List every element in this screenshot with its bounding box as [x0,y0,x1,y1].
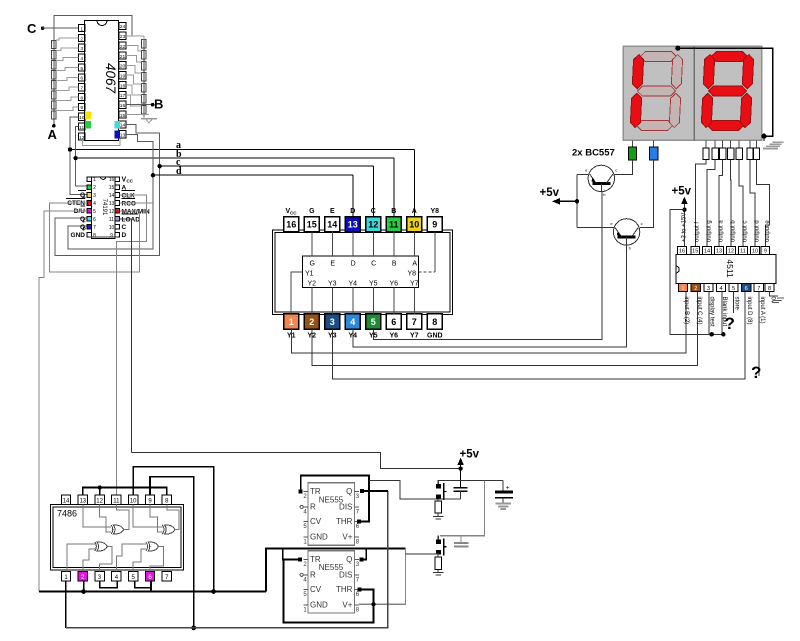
74191 pin 6 box [87,217,92,222]
resistor Rs1 (segment) [703,148,709,160]
wire right ladder tap to 4067 pin 18 [126,85,142,95]
7486 pin 8 box [162,495,171,504]
4067 pin 13 box [119,131,126,138]
svg-text:11: 11 [113,498,120,504]
svg-text:14: 14 [63,498,70,504]
svg-text:5: 5 [732,286,735,292]
74191 pin 3 box [87,193,92,198]
svg-text:+5v: +5v [460,449,480,461]
svg-text:5: 5 [93,209,96,215]
wire ladder tap to 4067 pin 3 [56,48,79,50]
svg-text:?: ? [725,314,735,333]
wire TR2 connection [283,549,301,560]
wire right ladder tap to 4067 pin 21 [126,55,142,61]
4511 pin 10 box [751,246,760,254]
electrolytic C3 [502,481,504,491]
4067 pin 23 box [119,32,126,39]
right ladder chain wire [143,39,145,116]
U3 wire Y2 to pin 2 [311,288,313,314]
svg-text:Q: Q [346,487,352,496]
4067 pin 14 channel marker (cyan) [114,121,120,129]
74191 pin 7 box [87,225,92,230]
svg-text:CV: CV [310,585,322,594]
svg-text:4067: 4067 [103,63,118,94]
svg-text:15: 15 [692,249,698,255]
U3 pin 3 box [325,314,340,329]
4511 pin 12 box [727,246,736,254]
4511 pin 5 box [729,284,738,292]
junction pin9 rail [191,626,196,631]
wire TR1-THR1 loop [301,476,369,522]
4511 pin 14 box [703,246,712,254]
7486 pin 6 box [145,572,154,581]
display pin stub 5 [738,140,740,148]
resistor R12 (right ladder) [142,72,147,81]
svg-text:C: C [122,224,127,231]
resistor R2 (left ladder) [52,51,57,59]
IC U2 74191 counter body [92,177,115,239]
wire 4511 pin4 drop [721,292,723,335]
wire ladder tap to 4067 pin 9 [56,107,79,111]
svg-text:output b: output b [730,220,736,242]
U3 wire pin 11 to network [393,232,395,256]
svg-text:12: 12 [79,135,85,141]
U3 pin 1 box [284,314,299,329]
4067 pin 18 box [119,81,126,88]
svg-text:8: 8 [93,233,96,239]
XOR gate A (7486) [111,525,113,534]
wire 7486 pin 10 to rail [133,467,213,592]
svg-text:Y8: Y8 [407,271,416,278]
resistor R3 (left ladder) [52,61,57,69]
junction net-d [151,173,155,177]
resistor R14 (right ladder) [142,94,147,103]
svg-text:6: 6 [391,317,396,327]
wire LOAD to +5v rail [120,219,132,453]
7486 internal wires gate A [83,504,111,527]
4067 pin 20 box [119,62,126,69]
svg-text:Y1: Y1 [305,271,314,278]
svg-text:Y2: Y2 [308,280,317,287]
svg-text:18: 18 [120,83,126,89]
7486 internal wires gate D [116,544,146,572]
svg-text:B: B [391,208,396,215]
4067 pin 7 box [79,84,85,91]
wire down to THR2 node [359,549,406,605]
svg-text:D: D [350,208,355,215]
4511 pin 16 box [678,246,687,254]
svg-text:15: 15 [307,220,317,230]
display pin stub 3 [722,140,724,148]
svg-text:D/U: D/U [74,208,86,215]
wire right ladder tap to 4067 pin 19 [126,75,142,84]
svg-text:input C (4): input C (4) [696,297,702,325]
wire Q1 emitter [577,173,588,175]
wire net b horizontal [76,157,394,159]
svg-text:A: A [412,261,417,268]
wire segment resistor 5 to 4511 [739,160,743,247]
svg-text:7486: 7486 [57,509,77,519]
wire net-b vertical (4067 pin11 - QB) [76,127,87,186]
svg-text:D: D [351,261,356,268]
wire segment resistor 2 to 4511 [707,160,715,247]
wire ladder tap to 4067 pin 2 [56,38,79,40]
node B [126,104,152,106]
svg-text:GND: GND [310,533,328,542]
U3 wire Y4 to pin 4 [352,288,354,314]
wire net d horizontal [153,174,353,176]
U3 wire pin 13 to network [352,232,354,256]
svg-text:input A (1): input A (1) [759,297,765,324]
wire 7486 pin 9 to bottom rail [150,477,194,628]
4511 pin8 ground [770,292,779,296]
74191 pin 1 box [87,177,92,182]
svg-text:R: R [310,502,316,511]
svg-text:7: 7 [757,286,760,292]
svg-text:9: 9 [764,249,767,255]
svg-text:22: 22 [120,44,126,50]
svg-text:G: G [309,261,314,268]
4511 pin 2 box [691,284,700,292]
74191 pin 11 box [115,217,120,222]
IC U6 NE555 timer 1 [308,483,354,545]
wire D/U riser (magenta net) [39,211,87,592]
svg-text:G: G [309,208,315,215]
svg-text:14: 14 [109,193,115,199]
XOR gate B (7486) [162,525,164,534]
junction pin 2 magenta rail [81,589,86,594]
74191 pin 10 box [115,225,120,230]
wire segment resistor 3 to 4511 [719,160,723,247]
svg-text:Y8: Y8 [431,208,440,215]
wire display pin to blue box [653,140,655,147]
svg-text:1: 1 [289,317,294,327]
svg-text:10: 10 [130,498,137,504]
svg-text:2: 2 [694,286,697,292]
U3 pin 12 box [366,217,381,232]
U3 wire Y3 to pin 3 [331,288,333,314]
svg-text:Y3: Y3 [328,280,337,287]
display divider [693,46,695,140]
wire THR1 to button1 [369,480,438,499]
svg-text:A: A [412,208,417,215]
resistor Rs4 (segment) [728,148,734,160]
resistor R6 (left ladder) [52,91,57,99]
svg-text:6: 6 [80,76,83,82]
74191 pin 14 box [115,193,120,198]
4511 pin 1 box [678,284,687,292]
U3 pin 6 box [386,314,401,329]
resistor R17 [435,557,442,569]
svg-text:C: C [371,208,376,215]
bottom rail Q1 to 7486 pin1 [66,491,388,628]
svg-text:store: store [734,297,740,311]
74191 pin 2 box [87,185,92,190]
7486 pin 2 box [78,572,87,581]
junction LT [710,332,714,336]
wire net b drop to U3 pin11 [393,158,395,217]
wire net c drop to U3 pin12 [372,166,374,217]
U3 pin 8 box [427,314,442,329]
U3 pin 5 box [366,314,381,329]
svg-text:4: 4 [93,201,96,207]
wire CLK loop to 7486 pin11 [116,195,146,495]
4067 pin 11 channel marker (green) [85,121,91,129]
4067 pin 5 box [79,64,85,71]
+5v rail from LOAD [131,452,460,468]
svg-text:21: 21 [120,54,126,60]
svg-text:10: 10 [409,220,419,230]
74191 pin 16 box [115,177,120,182]
svg-text:1: 1 [80,26,83,32]
svg-text:output f: output f [695,222,701,242]
svg-text:20: 20 [120,64,126,70]
wire 7486 pin 6 riser [150,581,152,592]
IC U1 4067 multiplexer body [85,21,119,141]
svg-text:C: C [371,261,376,268]
wire rail riser to TR2 line [266,549,406,592]
wire 4067 pin12 to pin13 net [82,138,120,145]
svg-text:Y7: Y7 [410,280,419,287]
svg-text:7: 7 [93,225,96,231]
resistor R5 (left ladder) [52,81,57,89]
U3 wire pin 15 to network [311,232,313,256]
junction pin10 rail [211,589,216,594]
7486 internal wires gate B [133,504,162,527]
svg-text:E: E [330,208,335,215]
4067 pin 4 box [79,54,85,61]
U3 wire Y7 to pin 7 [413,288,415,314]
U3 wire Y6 to pin 6 [393,288,395,314]
wire button2 bottom to Q2/THR2 node [406,553,439,556]
wire ladder tap to 4067 pin 4 [56,58,79,61]
current limit marker green [628,147,636,160]
XOR gate D (7486) [146,542,148,551]
ground below display right [763,136,765,141]
svg-text:12: 12 [368,220,378,230]
U3 pin 13 box [345,217,360,232]
wire display pin to green box [631,140,633,147]
U3 wire pin 9 to Y8 (dash) [419,271,435,273]
svg-text:Y4: Y4 [349,280,358,287]
svg-text:GND: GND [71,232,86,239]
junction net-a [68,147,72,151]
svg-text:3: 3 [93,193,96,199]
wire 7486 pins 13-12-8 net [83,488,167,495]
svg-text:LOAD: LOAD [122,216,141,223]
7486 pin 12 box [95,495,104,504]
svg-text:TR: TR [310,487,321,496]
svg-text:5: 5 [80,66,83,72]
svg-text:7: 7 [412,317,417,327]
svg-text:12: 12 [96,498,103,504]
left ladder chain wire [53,41,55,122]
74191 pin 8 box [87,232,92,237]
7486 pin 7 box [162,572,171,581]
svg-text:Y5: Y5 [369,280,378,287]
wire Y3 to 4511 input D [332,292,745,379]
wire right ladder tap to 4067 pin 17 [126,95,142,106]
wire ladder tap to 4067 pin 8 [56,97,79,100]
resistor R9 (right ladder) [142,39,147,48]
svg-text:2: 2 [309,317,314,327]
wire RCO stub [120,202,153,204]
wire Q1 collector to green marker [615,160,633,175]
svg-text:17: 17 [120,93,126,99]
emitter +5v rail [576,174,578,227]
svg-text:A: A [48,127,58,142]
svg-text:13: 13 [120,133,126,139]
wire net d drop to U3 pin13 [352,175,354,217]
junction BI [721,332,725,336]
svg-text:DIS: DIS [339,502,352,511]
wire Q1 out [362,490,388,492]
U3 wire Y5 to pin 5 [372,288,374,314]
svg-text:+5v: +5v [540,187,560,199]
wire right ladder tap to 4067 pin 20 [126,65,142,73]
magenta rail [39,591,266,593]
svg-text:Y7: Y7 [410,333,419,340]
wire 7486 pins 3-4 u loop [100,581,118,588]
svg-text:GND: GND [427,333,443,340]
svg-text:9: 9 [80,105,83,111]
4067 pin 10 box [79,113,85,120]
svg-text:output g: output g [706,220,712,242]
svg-text:10: 10 [79,115,85,121]
resistor R7 (left ladder) [52,101,57,109]
wire button1 bottom node [438,498,460,500]
capacitor C1 [454,487,468,489]
push button S2 [436,539,441,544]
svg-text:CC: CC [290,210,297,215]
4511 pin 11 box [739,246,748,254]
display pin stub 7 [755,140,757,148]
wire 4511 pin7 inputA drop + ? [758,292,760,376]
XOR gate C (7486) [95,542,97,551]
4067 pin 17 box [119,91,126,98]
U3 pin 14 box [325,217,340,232]
svg-text:4511: 4511 [725,259,735,278]
7486 pin 3 box [95,572,104,581]
svg-text:4: 4 [80,56,83,62]
junction net-b [73,156,77,160]
svg-text:R: R [310,570,316,579]
wire 4511 pin3 drop [708,292,710,335]
svg-text:2x BC557: 2x BC557 [572,148,615,159]
svg-text:12: 12 [728,249,734,255]
wire 4511 pin5 store drop + ? [733,292,735,313]
4067 pin 15 box [119,111,126,118]
svg-text:C: C [27,21,37,36]
4067 pin 9 box [79,103,85,110]
wire Y1 to 4511 input B [291,292,686,354]
7-segment display module background [623,46,761,140]
junction display right [761,134,766,139]
U3 pin 10 box [407,217,422,232]
IC U5 7486 body [50,504,183,570]
svg-text:output e: output e [765,220,771,242]
wire button2 top [437,536,439,540]
IC U3 outer body [273,230,453,315]
4067 pin 3 box [79,44,85,51]
svg-text:16: 16 [120,103,126,109]
U3 pin 4 box [345,314,360,329]
svg-text:16: 16 [286,220,296,230]
wire +5v to second stage [440,481,485,536]
4067 pin 10 channel marker (yellow) [85,111,91,118]
4067 pin 12 box [79,133,85,140]
wire Q2 collector to blue marker [640,160,654,228]
U3 wire pin 12 to network [372,232,374,256]
7486 internal wires gate C [67,544,95,572]
7486 pin 9 box [145,495,154,504]
svg-text:74191: 74191 [101,199,107,216]
74191 pin 13 box [115,201,120,206]
svg-text:3: 3 [707,286,710,292]
resistor Rs2 (segment) [712,148,718,160]
wire pin23 to right ladder top [126,35,144,37]
ground R16 [437,513,439,516]
U3 wire pin 10 to network [413,232,415,256]
svg-text:B: B [392,261,397,268]
display pin stub 4 [730,140,732,148]
4067 pin 11 box [79,123,85,130]
svg-text:23: 23 [120,34,126,40]
ground at 4067 pin 15 [126,114,149,116]
svg-text:4: 4 [719,286,722,292]
svg-text:16: 16 [679,249,685,255]
4067 pin 21 box [119,52,126,59]
resistor R1 (left ladder) [52,41,57,49]
svg-text:8: 8 [768,286,771,292]
svg-text:CC: CC [127,179,134,184]
svg-text:2: 2 [93,185,96,191]
4067 pin 16 box [119,101,126,108]
4511 pin 9 box [761,246,770,254]
wire right ladder tap to 4067 pin 22 [126,46,142,51]
resistor R4 (left ladder) [52,71,57,79]
svg-text:THR: THR [336,585,353,594]
wire Q2 connection [361,549,366,560]
resistor R16 [435,501,442,513]
svg-text:1: 1 [681,286,684,292]
resistor R8 (left ladder) [52,111,57,119]
svg-text:CV: CV [310,517,322,526]
svg-text:+5v: +5v [672,186,692,198]
4067 pin 24 box [119,22,126,29]
U3 pin 9 box [427,217,442,232]
wire ladder-top to pin 23 loop [54,15,132,40]
4067 pin 1 box [79,25,85,32]
svg-text:GND: GND [310,600,328,609]
transistor Q1 BC557 [588,165,614,191]
svg-text:THR: THR [336,517,353,526]
4511 pin 8 box [765,284,774,292]
resistor Rs7 (segment) [753,148,759,160]
svg-text:14: 14 [704,249,710,255]
svg-text:2: 2 [80,36,83,42]
svg-text:11: 11 [109,217,114,223]
wire right ladder bottom to ground [143,117,145,119]
U3 pin 16 box [284,217,299,232]
display pin stub 2 [714,140,716,148]
4067 pin 8 box [79,93,85,100]
ground R17 [437,569,439,572]
svg-text:8: 8 [432,317,437,327]
wire segment resistor 6 to 4511 [750,160,755,247]
wire display common loop [678,48,773,136]
svg-text:output d: output d [754,220,760,242]
